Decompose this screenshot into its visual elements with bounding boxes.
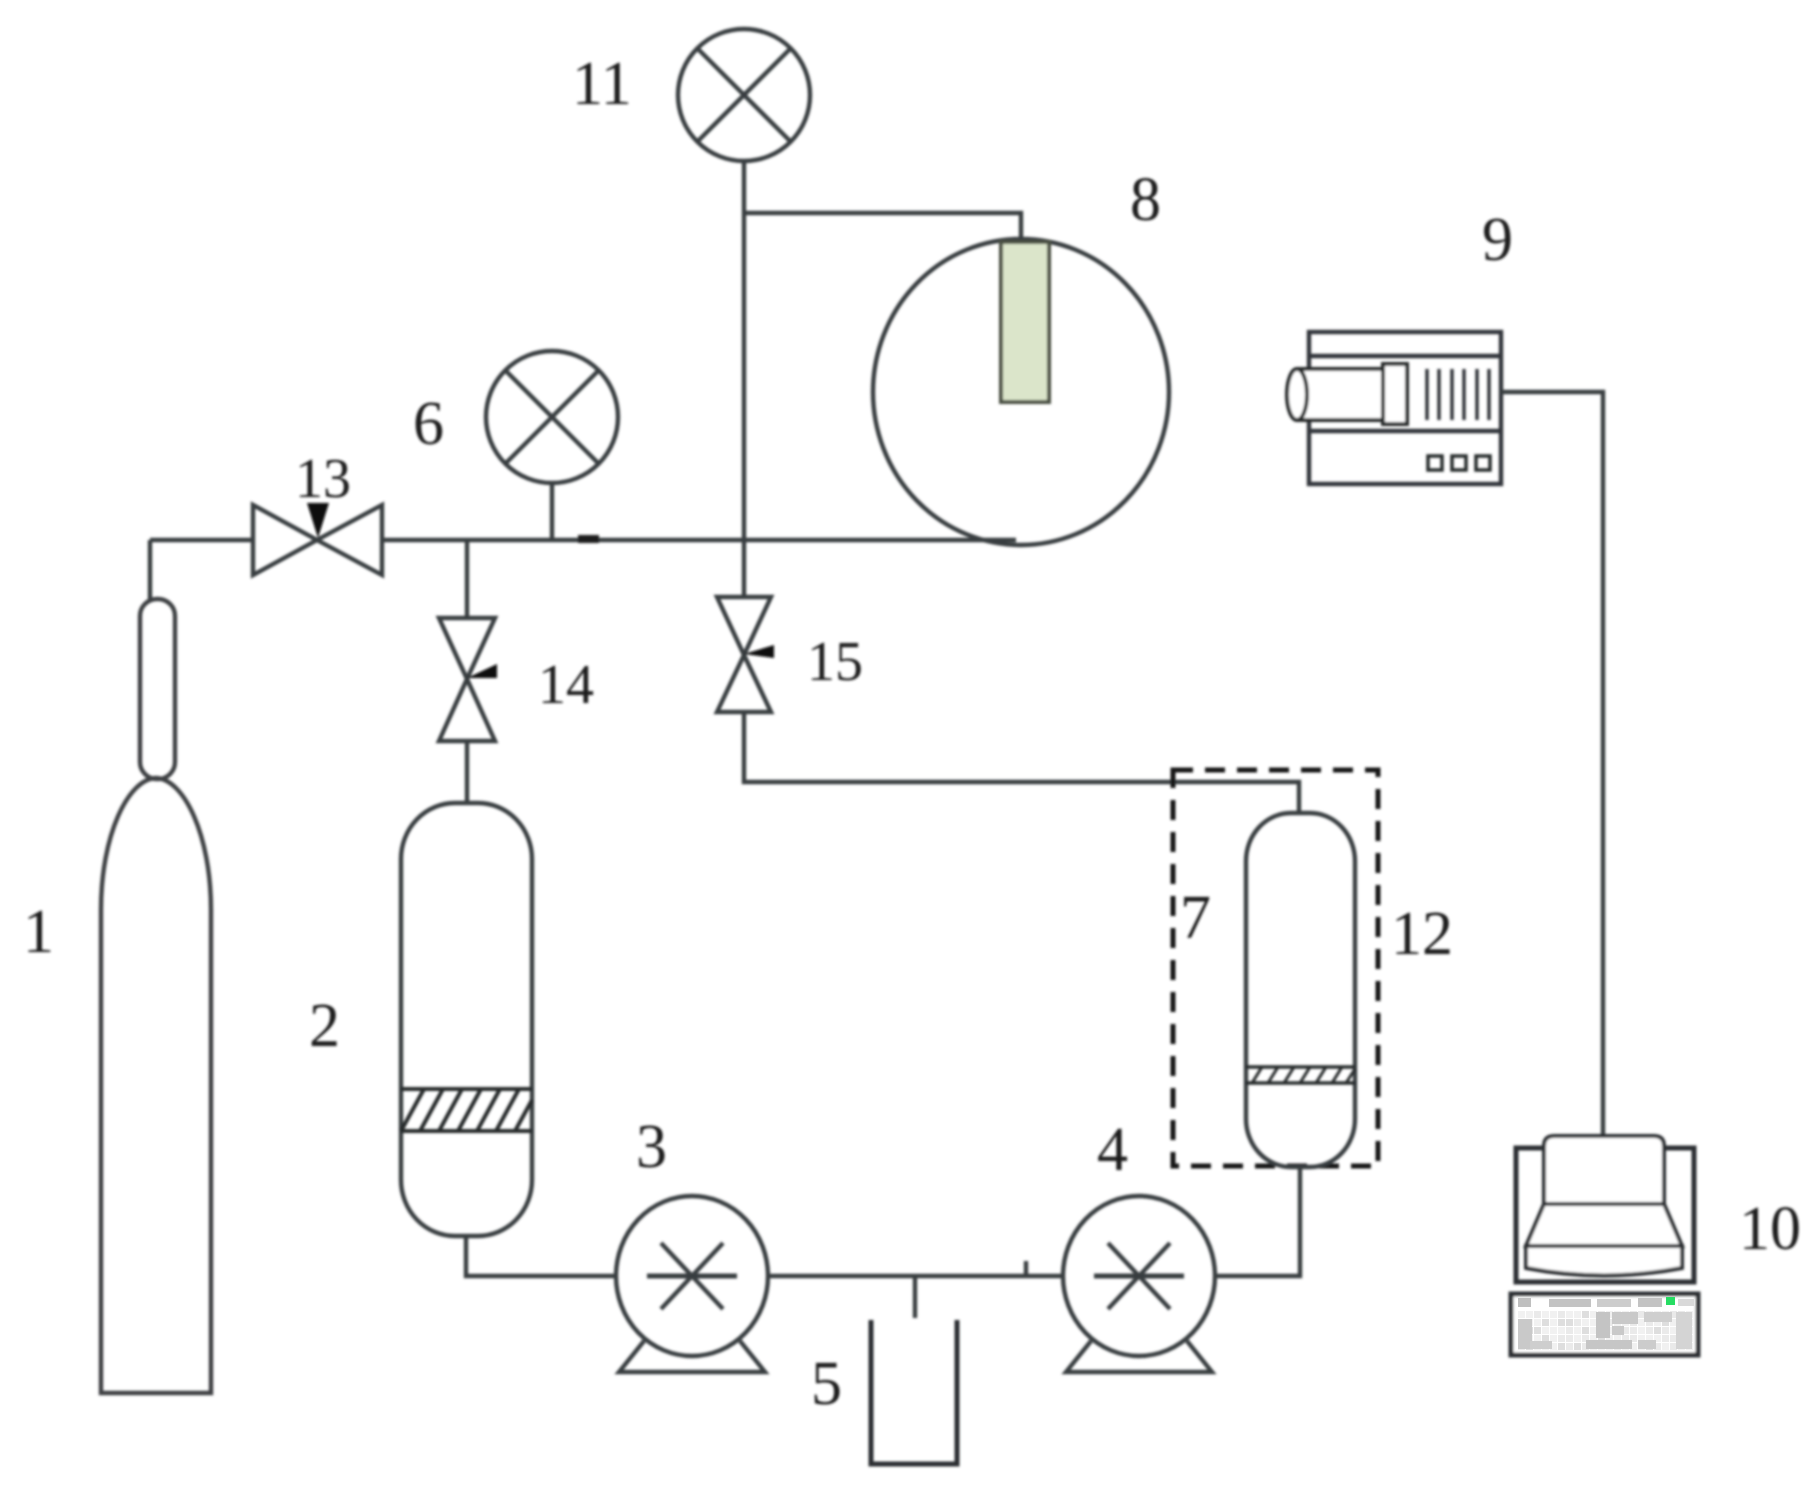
pump 3 <box>616 1196 768 1372</box>
wire main line right of valve 13 <box>382 538 1016 542</box>
svg-text:15: 15 <box>807 631 863 693</box>
valve 13 <box>253 503 382 575</box>
wire main line left segment <box>150 538 253 542</box>
junction tick <box>1024 1261 1028 1276</box>
gauge 11 <box>678 29 810 213</box>
svg-text:3: 3 <box>636 1113 667 1181</box>
gauge 6 <box>486 351 618 540</box>
svg-text:13: 13 <box>295 448 351 510</box>
water bath circle 8 <box>873 239 1169 545</box>
wire 9 to computer 10 <box>1501 392 1603 1136</box>
beaker 5 stem <box>913 1276 917 1318</box>
pump 4 <box>1063 1196 1215 1372</box>
svg-text:2: 2 <box>309 992 340 1060</box>
svg-text:11: 11 <box>572 50 632 118</box>
valve 15 <box>717 597 774 712</box>
gas cylinder 1 <box>101 599 211 1393</box>
wire gauge 11 down through main line to valve 15 <box>742 213 746 597</box>
computer monitor 10 <box>1516 1136 1694 1282</box>
svg-text:5: 5 <box>811 1350 842 1418</box>
wire to valve 14 <box>465 540 469 618</box>
beaker 5 <box>871 1320 957 1464</box>
vessel 12 <box>1246 813 1355 1167</box>
svg-text:12: 12 <box>1391 900 1453 968</box>
wire vessel 2 to pump line <box>466 1236 616 1276</box>
stirrer rod (green) <box>1001 242 1049 402</box>
keyboard keys <box>1518 1297 1694 1350</box>
wire cylinder to main line <box>148 540 152 599</box>
svg-text:4: 4 <box>1097 1116 1128 1184</box>
wire pump 3 to pump 4 <box>768 1274 1064 1278</box>
svg-text:7: 7 <box>1180 884 1211 952</box>
wire valve 14 to vessel 2 <box>465 741 469 803</box>
wire pump 4 to vessel 12 <box>1214 1167 1300 1276</box>
svg-text:8: 8 <box>1130 166 1161 234</box>
valve 14 <box>439 618 497 741</box>
wire valve 15 to vessel 12 <box>744 712 1299 813</box>
svg-text:1: 1 <box>23 898 54 966</box>
wire branch to stirrer rod <box>744 213 1021 242</box>
dashed box 7 <box>1173 770 1378 1166</box>
vessel 2 <box>401 803 532 1236</box>
keyboard <box>1511 1294 1698 1355</box>
wire thick dash on main line <box>578 535 599 543</box>
gas chromatograph 9 <box>1287 332 1501 484</box>
svg-text:6: 6 <box>413 390 444 458</box>
svg-text:10: 10 <box>1739 1195 1801 1263</box>
svg-text:14: 14 <box>538 654 594 716</box>
svg-text:9: 9 <box>1482 206 1513 274</box>
